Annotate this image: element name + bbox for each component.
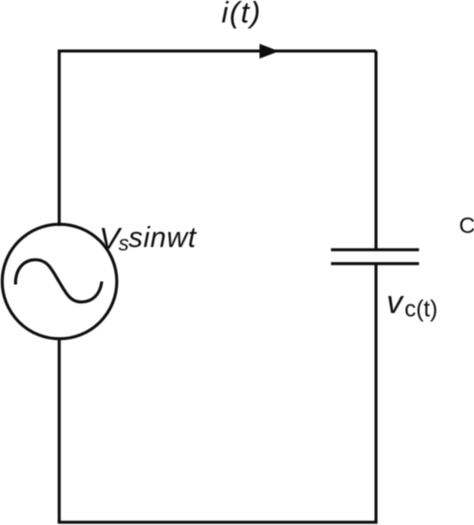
AC source sine symbol: [15, 260, 101, 302]
svg-text:i(t): i(t): [222, 0, 262, 29]
wire left upper: [58, 51, 61, 226]
wire right lower: [375, 265, 378, 523]
svg-text:v: v: [387, 284, 405, 320]
svg-text:C: C: [459, 213, 474, 238]
capacitor C bottom plate: [331, 262, 419, 265]
AC voltage source Vs circle: [2, 224, 117, 339]
svg-text:sinwt: sinwt: [129, 222, 197, 254]
capacitor C top plate: [331, 248, 419, 251]
wire right upper: [375, 51, 378, 249]
node current arrow i(t): [260, 44, 280, 59]
wire left lower: [58, 338, 61, 523]
wire top (source to capacitor): [58, 50, 376, 53]
wire bottom: [58, 521, 378, 524]
svg-text:c(t): c(t): [405, 295, 438, 321]
